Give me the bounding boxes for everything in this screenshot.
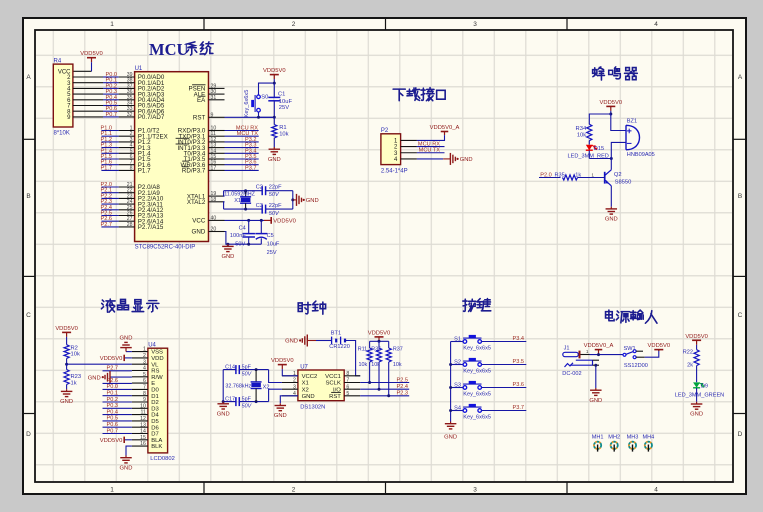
crystal X1 11.0592MHZ <box>224 191 255 209</box>
svg-text:3: 3 <box>473 487 477 494</box>
LCD U4 LCD0802 <box>132 342 175 462</box>
svg-text:25V: 25V <box>279 105 289 111</box>
svg-text:P0.5: P0.5 <box>106 416 118 422</box>
LCD data wires D0-D7 with nets P0.0-P0.7 <box>103 384 132 434</box>
svg-text:31: 31 <box>211 95 217 101</box>
wire VCC of R4 to VDD5V0 <box>73 70 92 72</box>
svg-text:6: 6 <box>143 378 146 384</box>
wire VDD rail to R34 <box>589 114 611 124</box>
svg-text:D15: D15 <box>594 146 604 152</box>
ground (divider) <box>60 389 73 405</box>
svg-text:P1.7: P1.7 <box>138 168 151 175</box>
svg-text:7: 7 <box>346 378 349 384</box>
svg-text:BLA: BLA <box>151 438 162 444</box>
svg-text:22pF: 22pF <box>269 203 282 209</box>
svg-text:GND: GND <box>285 339 298 345</box>
svg-text:P0.7: P0.7 <box>106 428 118 434</box>
svg-text:P1.7: P1.7 <box>100 165 112 171</box>
svg-text:VDD5V0: VDD5V0 <box>100 356 123 362</box>
svg-text:4: 4 <box>143 366 146 372</box>
svg-text:8*10K: 8*10K <box>54 131 70 137</box>
ground (LED) <box>690 402 703 418</box>
wire key to RST rail <box>259 112 275 117</box>
svg-text:C1: C1 <box>278 92 285 98</box>
svg-text:SCLK: SCLK <box>326 381 341 387</box>
svg-text:1: 1 <box>110 21 114 28</box>
svg-text:VCC: VCC <box>192 218 206 225</box>
wire pin1 to VDD5V0_A <box>417 135 445 140</box>
svg-text:D1: D1 <box>151 394 159 400</box>
svg-text:15: 15 <box>140 435 146 441</box>
wire battery to VCC1 <box>345 341 360 376</box>
svg-text:X2: X2 <box>302 387 309 393</box>
section title MCU系统 <box>149 40 213 59</box>
svg-text:B: B <box>738 193 742 200</box>
svg-text:R35: R35 <box>555 172 565 178</box>
wire RST <box>225 116 275 118</box>
capacitor C5 10uF 25V (polarized) <box>255 220 280 255</box>
section title 按键 <box>463 299 491 312</box>
svg-text:RD/P3.7: RD/P3.7 <box>182 168 206 175</box>
svg-text:P3.7: P3.7 <box>245 165 257 171</box>
pullup rail <box>370 340 389 342</box>
power VDD5V0 (LCD contrast) <box>55 326 78 339</box>
buzzer BZ1 HNB09A05 <box>611 114 655 159</box>
svg-text:50V: 50V <box>242 404 253 410</box>
svg-text:C3: C3 <box>256 203 263 209</box>
svg-text:25V: 25V <box>267 250 277 256</box>
power VDD5V0 (LED indicator) <box>685 334 708 350</box>
svg-text:S1: S1 <box>454 336 461 342</box>
svg-text:3: 3 <box>293 384 296 390</box>
wire LED to collector node <box>589 158 611 160</box>
svg-text:P2.5: P2.5 <box>396 377 408 383</box>
svg-text:D4: D4 <box>151 413 159 419</box>
section title 液晶显示 <box>101 299 158 312</box>
section title 电源输入 <box>606 310 657 323</box>
capacitor C4 100nF 50V <box>230 220 255 247</box>
power VDD5V0 to VDD pin (bar style) <box>100 355 132 362</box>
svg-text:P2.7: P2.7 <box>106 366 118 372</box>
svg-text:R2: R2 <box>71 345 78 351</box>
svg-text:9: 9 <box>211 112 214 118</box>
svg-text:U4: U4 <box>148 342 156 348</box>
svg-text:1k: 1k <box>575 172 581 178</box>
svg-text:16: 16 <box>140 441 146 447</box>
svg-text:10k: 10k <box>279 131 288 137</box>
svg-text:32.768kHz: 32.768kHz <box>225 384 251 390</box>
svg-text:GND: GND <box>217 411 230 417</box>
wire pin4 to GND <box>417 158 443 160</box>
svg-text:P0.1: P0.1 <box>106 391 118 397</box>
svg-text:X1: X1 <box>302 381 309 387</box>
power VDD5V0 (buzzer) <box>600 100 623 114</box>
key left rail <box>450 342 452 422</box>
section title 时钟 <box>298 301 325 314</box>
mounting hole MH1 <box>592 434 604 451</box>
svg-text:RS: RS <box>151 369 159 375</box>
svg-text:P0.0: P0.0 <box>106 384 118 390</box>
wire VL to divider <box>67 363 132 365</box>
svg-text:GND: GND <box>306 198 319 204</box>
wires R4 to MCU P0 bus + net labels P0.0-P0.7 <box>73 72 119 118</box>
svg-text:VDD5V0: VDD5V0 <box>685 334 708 340</box>
key S2 Key_6x6x5 <box>451 358 527 375</box>
svg-text:R1: R1 <box>279 125 286 131</box>
svg-text:P2.7/A15: P2.7/A15 <box>138 224 164 231</box>
wire right rail to GND <box>292 191 294 209</box>
svg-text:P0.2: P0.2 <box>106 397 118 403</box>
resistor R2 10k <box>64 339 80 364</box>
svg-text:10k: 10k <box>393 362 402 368</box>
resistor R23 1k <box>64 364 81 389</box>
svg-text:7: 7 <box>143 385 146 391</box>
net stubs P1.x left of MCU <box>100 126 118 172</box>
section title 蜂鸣器 <box>593 67 638 80</box>
svg-text:10uF: 10uF <box>267 242 280 248</box>
ground (crystal left) <box>217 402 230 418</box>
power VDD5V0 (DS1302 VCC2) <box>271 358 294 376</box>
svg-text:5pF: 5pF <box>242 364 252 370</box>
svg-text:2: 2 <box>293 378 296 384</box>
svg-text:D5: D5 <box>151 419 159 425</box>
capacitor C3 22pF 50V <box>256 203 282 217</box>
svg-text:GND: GND <box>302 394 315 400</box>
svg-text:MH2: MH2 <box>608 434 620 440</box>
svg-text:14: 14 <box>140 429 146 435</box>
svg-text:S8550: S8550 <box>615 180 632 186</box>
svg-text:RST: RST <box>329 394 341 400</box>
svg-text:P2.4: P2.4 <box>396 384 408 390</box>
wire pin2 MCU RX <box>417 146 445 148</box>
transistor Q2 S8550 <box>605 159 632 207</box>
svg-text:X2: X2 <box>263 384 270 390</box>
svg-text:D6: D6 <box>151 425 159 431</box>
svg-text:1k: 1k <box>71 380 77 386</box>
svg-text:MCU TX: MCU TX <box>419 148 441 154</box>
wire crystal top rail <box>224 190 293 192</box>
svg-text:1: 1 <box>110 487 114 494</box>
svg-text:GND: GND <box>589 398 602 404</box>
svg-text:GND: GND <box>60 399 73 405</box>
LED9 LED_3MM_GREEN <box>675 366 724 402</box>
svg-text:2: 2 <box>292 487 296 494</box>
svg-text:2k: 2k <box>687 362 693 368</box>
svg-text:50V: 50V <box>242 372 253 378</box>
ground (power input) <box>589 388 602 404</box>
svg-text:P2.0: P2.0 <box>540 172 552 178</box>
wire reset top rail <box>259 83 275 95</box>
svg-text:VDD5V0: VDD5V0 <box>80 51 103 57</box>
power VDD5V0 to BLA pin (bar style) <box>100 437 132 444</box>
svg-text:3: 3 <box>143 359 146 365</box>
LED15 LED_3MM_RED <box>568 141 609 160</box>
capacitor C2 22pF 50V <box>256 185 282 198</box>
svg-text:GND: GND <box>274 413 287 419</box>
wire VCC2 <box>282 375 298 377</box>
ground (reset) <box>268 147 281 163</box>
svg-text:17: 17 <box>211 165 217 171</box>
svg-text:R/W: R/W <box>151 375 163 381</box>
svg-text:2: 2 <box>292 21 296 28</box>
svg-text:SW1: SW1 <box>624 346 636 352</box>
svg-text:MCU RX: MCU RX <box>418 141 440 147</box>
svg-text:Key_6x6x5: Key_6x6x5 <box>463 346 491 352</box>
svg-text:XTAL2: XTAL2 <box>187 199 206 206</box>
junction <box>273 82 276 85</box>
svg-text:R11: R11 <box>358 346 368 352</box>
chip U7 DS1302N <box>282 364 360 410</box>
svg-text:VDD: VDD <box>151 356 163 362</box>
svg-text:VDD5V0: VDD5V0 <box>55 326 78 332</box>
svg-text:GND: GND <box>444 435 457 441</box>
svg-text:3: 3 <box>473 21 477 28</box>
svg-text:GND: GND <box>268 157 281 163</box>
svg-text:13: 13 <box>140 422 146 428</box>
wire X2 <box>269 389 282 401</box>
ground (DS1302) <box>274 403 287 419</box>
svg-text:P3.5: P3.5 <box>512 359 524 365</box>
svg-text:10k: 10k <box>371 362 380 368</box>
svg-text:GND: GND <box>192 229 206 236</box>
svg-text:100nF: 100nF <box>230 233 246 239</box>
resistor R36 10k <box>371 341 381 389</box>
svg-text:E: E <box>151 381 155 387</box>
svg-text:C: C <box>738 312 743 319</box>
wire jack pin1 to switch <box>590 354 623 356</box>
svg-text:U7: U7 <box>300 364 308 370</box>
svg-text:P0.6: P0.6 <box>106 422 118 428</box>
svg-text:10k: 10k <box>358 362 367 368</box>
wire RS net P2.7 <box>103 370 132 372</box>
svg-text:VDD5V0: VDD5V0 <box>271 358 294 364</box>
svg-text:Q2: Q2 <box>614 172 622 178</box>
svg-text:VDD5V0: VDD5V0 <box>273 219 296 225</box>
svg-text:J1: J1 <box>564 345 570 351</box>
svg-text:R23: R23 <box>71 374 82 380</box>
svg-text:50V: 50V <box>269 211 280 217</box>
svg-text:11.0592MHZ: 11.0592MHZ <box>224 192 255 198</box>
resistor R11 10k <box>358 341 373 382</box>
section title 下载接口 <box>393 88 445 101</box>
svg-text:GND: GND <box>120 465 133 471</box>
svg-text:R37: R37 <box>393 346 403 352</box>
net labels MCU RX / MCU TX and P3.x right of MCU <box>225 125 259 171</box>
svg-text:50V: 50V <box>269 192 280 198</box>
ground (MCU decoupling) <box>221 244 234 260</box>
wire I/O to P2.4 <box>360 388 409 390</box>
svg-text:VCC2: VCC2 <box>302 374 318 380</box>
svg-text:P2.7: P2.7 <box>100 222 112 228</box>
capacitor C17 5pF 50V <box>225 396 252 409</box>
svg-text:C: C <box>26 312 31 319</box>
svg-text:VSS: VSS <box>151 350 163 356</box>
svg-text:P0.4: P0.4 <box>106 409 118 415</box>
svg-text:C17: C17 <box>225 396 235 402</box>
svg-text:4: 4 <box>654 21 658 28</box>
key S0 (reset button, vertical) <box>244 90 268 118</box>
svg-text:5pF: 5pF <box>242 396 252 402</box>
ground (crystal) <box>297 194 319 206</box>
capacitor C1 10uF 25V <box>268 83 292 117</box>
mounting hole MH3 <box>627 434 639 451</box>
svg-text:MH3: MH3 <box>627 434 639 440</box>
svg-text:9: 9 <box>143 397 146 403</box>
wire DS1302 GND <box>280 396 298 404</box>
svg-text:R4: R4 <box>54 59 62 65</box>
svg-text:D: D <box>26 431 31 438</box>
svg-text:VL: VL <box>151 362 159 368</box>
svg-text:VDD5V0: VDD5V0 <box>100 438 123 444</box>
svg-text:SS12D00: SS12D00 <box>624 363 648 369</box>
svg-text:10k: 10k <box>71 352 80 358</box>
svg-text:HNB09A05: HNB09A05 <box>627 152 655 158</box>
wire SCLK to P2.5 <box>360 382 409 384</box>
wire R/W to GND (left) <box>110 376 132 378</box>
svg-text:S2: S2 <box>454 359 461 365</box>
svg-text:D0: D0 <box>151 388 159 394</box>
svg-text:B: B <box>26 193 30 200</box>
key S4 Key_6x6x5 <box>451 404 527 421</box>
resistor R37 10k <box>386 341 403 396</box>
svg-text:VDD5V0: VDD5V0 <box>368 330 391 336</box>
svg-text:RST: RST <box>193 115 206 122</box>
svg-text:EA: EA <box>197 97 206 104</box>
net stubs P2.x left of MCU <box>100 182 118 228</box>
MCU U1 STC89C52RC-40I-DIP <box>119 66 225 251</box>
wire gnd to battery <box>307 340 316 342</box>
svg-text:A: A <box>738 74 743 81</box>
mounting hole MH2 <box>608 434 620 451</box>
svg-text:S3: S3 <box>454 382 461 388</box>
svg-text:P2.3: P2.3 <box>396 391 408 397</box>
svg-text:MH1: MH1 <box>592 434 604 440</box>
svg-text:P3.7: P3.7 <box>512 405 524 411</box>
svg-text:LED_3MM_GREEN: LED_3MM_GREEN <box>675 392 724 398</box>
svg-text:S4: S4 <box>454 405 461 411</box>
svg-text:S0: S0 <box>261 95 268 101</box>
battery BT1 CR1220 <box>329 331 350 351</box>
svg-text:10k: 10k <box>577 133 586 139</box>
ground (LCD R/W) <box>88 371 110 383</box>
power VDD5V0_A (download) <box>430 125 460 135</box>
svg-text:28: 28 <box>127 222 133 228</box>
wires XTAL1/XTAL2 <box>223 191 226 196</box>
svg-text:R36: R36 <box>371 346 381 352</box>
svg-text:10uF: 10uF <box>279 99 293 105</box>
svg-text:18: 18 <box>211 197 217 203</box>
svg-text:8: 8 <box>130 165 133 171</box>
capacitor C14 5pF 50V <box>225 364 252 377</box>
svg-text:Key_6x6x5: Key_6x6x5 <box>463 392 491 398</box>
svg-text:2.54-1*4P: 2.54-1*4P <box>381 168 408 174</box>
svg-text:P0.3: P0.3 <box>106 403 118 409</box>
svg-text:D9: D9 <box>701 384 708 390</box>
svg-text:P0.7: P0.7 <box>105 112 117 118</box>
svg-text:MH4: MH4 <box>642 434 654 440</box>
crystal X2 32.768kHz <box>225 370 269 402</box>
svg-text:Key_6x6x5: Key_6x6x5 <box>244 90 250 118</box>
connector J1 DC-002 <box>562 345 599 377</box>
wire switch to VDD5V0 <box>645 350 659 358</box>
key S3 Key_6x6x5 <box>451 381 527 398</box>
svg-text:C4: C4 <box>239 225 246 231</box>
svg-text:32: 32 <box>127 112 133 118</box>
svg-text:2: 2 <box>143 353 146 359</box>
resistor R35 1k with P2.0 net <box>539 172 605 180</box>
svg-text:12: 12 <box>140 416 146 422</box>
svg-text:VDD5V0_A: VDD5V0_A <box>430 125 460 131</box>
power VDD5V0 (above R4) <box>80 51 103 62</box>
ground (LCD backlight) <box>120 456 133 472</box>
svg-text:40: 40 <box>211 215 217 221</box>
svg-text:GND: GND <box>120 335 133 341</box>
power VDD5V0 (after switch) <box>648 343 671 351</box>
svg-text:D3: D3 <box>151 406 159 412</box>
svg-text:VDD5V0: VDD5V0 <box>648 343 671 349</box>
svg-text:STC89C52RC-40I-DIP: STC89C52RC-40I-DIP <box>135 244 196 250</box>
resistor network R4 8*10K <box>53 59 73 137</box>
svg-text:P3.6: P3.6 <box>512 382 524 388</box>
svg-text:D7: D7 <box>151 432 159 438</box>
ground (keys) <box>444 422 457 441</box>
svg-text:DC-002: DC-002 <box>562 371 581 377</box>
resistor R22 2k <box>683 349 699 368</box>
svg-text:GND: GND <box>221 254 234 260</box>
wire E net P2.6 <box>103 382 132 384</box>
power VDD5V0_A (input) <box>584 343 614 355</box>
svg-text:BT1: BT1 <box>331 331 341 337</box>
svg-text:GND: GND <box>605 217 618 223</box>
svg-text:D2: D2 <box>151 400 159 406</box>
svg-text:P2: P2 <box>381 128 389 134</box>
svg-text:Key_6x6x5: Key_6x6x5 <box>463 415 491 421</box>
svg-text:Key_6x6x5: Key_6x6x5 <box>463 369 491 375</box>
svg-text:U1: U1 <box>135 66 143 72</box>
wire crystal bottom rail <box>224 208 293 210</box>
wire RST to P2.3 <box>360 395 409 397</box>
svg-text:8: 8 <box>143 391 146 397</box>
key S1 Key_6x6x5 <box>451 335 527 352</box>
svg-text:1: 1 <box>143 347 146 353</box>
zone ticks <box>203 17 205 30</box>
svg-text:D: D <box>738 431 743 438</box>
svg-text:8: 8 <box>346 371 349 377</box>
svg-text:22pF: 22pF <box>269 185 282 191</box>
ground (LCD VSS) <box>120 335 133 351</box>
svg-text:VDD5V0: VDD5V0 <box>263 68 286 74</box>
svg-text:6: 6 <box>346 384 349 390</box>
svg-text:C14: C14 <box>225 364 235 370</box>
svg-text:5: 5 <box>346 391 349 397</box>
svg-text:4: 4 <box>654 487 658 494</box>
svg-text:GND: GND <box>88 375 101 381</box>
power VDD5V0 (reset) <box>263 68 286 83</box>
svg-text:R34: R34 <box>576 126 587 132</box>
svg-text:MCU: MCU <box>149 40 188 59</box>
svg-text:VDD5V0_A: VDD5V0_A <box>584 343 614 349</box>
svg-text:GND: GND <box>460 157 473 163</box>
mounting hole MH4 <box>642 434 654 451</box>
svg-text:BLK: BLK <box>151 444 162 450</box>
resistor R1 10k <box>272 117 289 147</box>
svg-text:CR1220: CR1220 <box>329 344 350 350</box>
svg-text:BZ1: BZ1 <box>627 119 637 125</box>
svg-text:C2: C2 <box>256 185 263 191</box>
svg-text:11: 11 <box>141 410 146 416</box>
crystal rails <box>223 369 268 371</box>
connector P2 2.54-1*4P <box>381 128 417 174</box>
